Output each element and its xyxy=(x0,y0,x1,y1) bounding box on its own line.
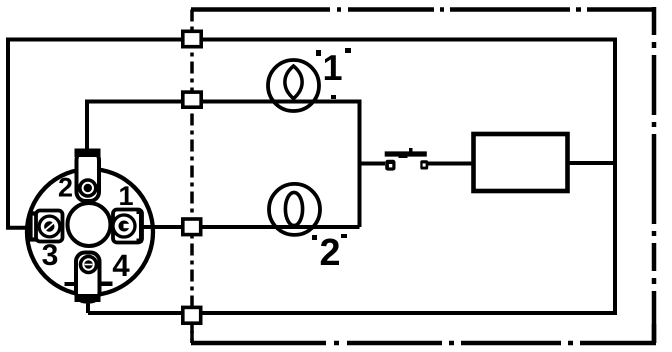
connector pin 1 socket (right) xyxy=(113,210,142,243)
connector pin 3 hole xyxy=(39,216,60,237)
connector label 3 xyxy=(42,244,57,265)
box component xyxy=(474,134,568,191)
connector pin 1 hole notch xyxy=(124,224,131,228)
frame bottom (dash-dot) xyxy=(191,341,656,346)
speck left of label 2 xyxy=(312,235,317,240)
connector pin 4 hole dot xyxy=(84,260,93,269)
speck left of label 1 xyxy=(316,50,321,56)
switch blade tick above xyxy=(409,148,413,152)
speck right of label 1 xyxy=(345,48,351,53)
lamp 1 circle xyxy=(268,60,319,111)
switch contact left hole xyxy=(389,164,392,167)
connector pin 3 hole slash xyxy=(45,222,55,230)
lamp 2 filament lens xyxy=(285,192,302,225)
wire right vertical xyxy=(613,38,617,314)
switch contact right xyxy=(420,160,428,169)
connector pin 1 hole dot xyxy=(119,221,130,232)
wire box to right vertical xyxy=(567,161,615,165)
connector pin 4 wing right xyxy=(101,282,113,287)
connector pin 2 hole xyxy=(80,180,96,196)
frame top (dash-dot) xyxy=(191,7,656,12)
connector pin 3 socket (left) xyxy=(36,211,63,242)
connector central circle xyxy=(68,203,111,246)
connector pin 4 hole xyxy=(81,257,97,273)
connector pin 2 hole dot xyxy=(84,184,92,192)
wire B + vertical node xyxy=(87,102,360,228)
frame bottom-right corner joint xyxy=(652,324,657,343)
connector pin 1 bracket xyxy=(137,212,142,241)
lamp 1 label "1" xyxy=(325,55,342,80)
connector pin 4 cap xyxy=(75,294,101,302)
wire C stub at connector right xyxy=(142,225,162,229)
speck right of label 2 xyxy=(341,234,347,238)
connector label 4 xyxy=(113,255,130,276)
connector pin 4 hole slash xyxy=(85,264,93,266)
frame bottom-left corner joint xyxy=(190,331,194,343)
connector pin 2 capsule (top) xyxy=(77,151,100,201)
junction square S2 xyxy=(183,92,201,107)
connector pin 3 hole dot xyxy=(44,221,54,231)
lamp 1 filament lens xyxy=(285,66,302,99)
wire bottom D xyxy=(88,311,617,315)
junction square S4 xyxy=(183,307,201,323)
wire switch branch xyxy=(360,162,386,166)
junction square S1 xyxy=(183,31,201,46)
connector pin 2 cap xyxy=(75,149,101,158)
wire top loop: A + left vertical + stub to connector xyxy=(8,40,615,228)
connector pin 4 capsule (bottom) xyxy=(76,253,100,302)
wire pin4 drop xyxy=(86,299,90,313)
switch contact right hole xyxy=(423,163,426,166)
connector outer circle xyxy=(27,169,153,295)
wire C (connector to node) xyxy=(143,225,360,229)
wire switch to box xyxy=(428,162,475,166)
switch blade bar xyxy=(385,151,427,156)
connector pin 1 hole xyxy=(113,215,135,237)
lamp 2 label "2" xyxy=(321,239,339,266)
connector label 2 xyxy=(59,178,72,197)
connector pin 4 wing left xyxy=(65,282,76,286)
speck below label 1 xyxy=(331,95,336,99)
switch blade tick below xyxy=(399,156,408,158)
connector label 1 xyxy=(120,186,133,205)
connector pin 3 bracket xyxy=(31,214,38,240)
frame right (dash-dot) xyxy=(652,7,657,343)
junction square S3 xyxy=(183,219,201,235)
lamp 2 circle xyxy=(269,184,320,235)
switch contact left xyxy=(385,160,395,171)
frame left vertical (dash-dot through junctions) xyxy=(190,10,194,344)
